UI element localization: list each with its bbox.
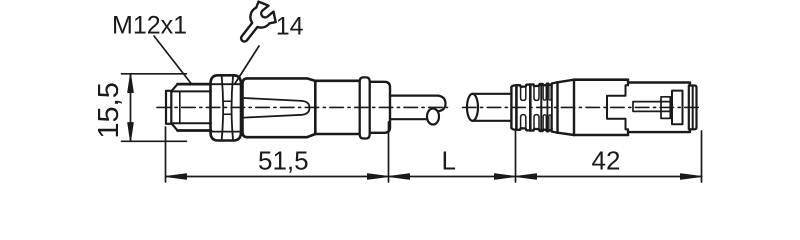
arrow 42 right [681, 174, 702, 180]
arrow L right [495, 174, 516, 180]
body right section [315, 81, 359, 134]
boot thick rib 2 [529, 85, 532, 131]
hex nut facet lines [211, 84, 242, 131]
svg-text:15,5: 15,5 [93, 82, 125, 138]
body mold parting line [314, 81, 316, 134]
boot U slot 3 bottom [543, 115, 546, 131]
hex nut [211, 75, 242, 140]
arrow 51,5 left [166, 174, 187, 180]
RJ45 cap inner line [692, 86, 694, 130]
M12 thread root lines [171, 91, 211, 123]
connector body grip section [243, 78, 316, 137]
RJ45 end cap [689, 86, 697, 130]
leader line wrench size [235, 46, 259, 84]
dimension 15,5 extension lines [122, 74, 187, 142]
M12 face rim [166, 91, 171, 124]
cable left piece [390, 96, 438, 120]
collar ring [360, 77, 370, 138]
svg-text:14: 14 [276, 12, 304, 40]
M12 thread outer lines [178, 84, 212, 130]
boot rib 4 [546, 84, 548, 132]
boot rib 3 [540, 84, 542, 131]
wrench icon [241, 2, 276, 42]
cable left break loop [427, 109, 439, 125]
arrow 42 left [516, 174, 537, 180]
hex nut waist lines [224, 101, 232, 114]
dimension 51,5 extension line left [165, 127, 167, 182]
thread start line [179, 91, 181, 123]
RJ45 mid block [661, 97, 670, 119]
boot end vertical [556, 82, 558, 132]
boot U slot 1 top [521, 85, 526, 101]
boot U slot 4 top [549, 84, 551, 101]
extension line at RJ45 end [701, 131, 703, 182]
RJ45 right block [672, 91, 683, 125]
svg-text:51,5: 51,5 [258, 146, 309, 176]
boot thick rib 1 [515, 85, 518, 129]
RJ45 latch contour [607, 85, 628, 129]
dimension 15,5 line [130, 74, 132, 142]
boot U slot 2 top [534, 84, 539, 100]
svg-text:42: 42 [592, 146, 621, 176]
arrow 51,5 right [368, 174, 389, 180]
cable left break curl [438, 96, 446, 112]
svg-text:M12x1: M12x1 [112, 12, 187, 40]
boot rib 5 [551, 83, 553, 131]
boot cone section [558, 80, 575, 135]
cone body junction line [573, 80, 575, 135]
boot U slot 4 bottom [549, 115, 551, 132]
cable right piece [473, 94, 512, 121]
leader line M12x1 [154, 36, 192, 84]
extension line at boot start [515, 132, 517, 183]
end sleeve [371, 82, 390, 133]
cable right piece ellipse [467, 94, 478, 121]
hex nut facet verticals [222, 76, 233, 139]
M12 thread chamfers [171, 84, 177, 130]
centerline left (axis through M12 connector and cable) [157, 106, 448, 108]
body wedge slot [244, 98, 310, 118]
svg-text:L: L [442, 146, 456, 176]
centerline right (axis through RJ45 connector) [463, 106, 703, 108]
RJ45 step verticals [627, 80, 629, 135]
dimension 15,5 arrows [128, 74, 134, 142]
boot U slot 3 top [543, 84, 546, 100]
boot U slot 2 bottom [534, 115, 539, 131]
RJ45 contact slot [633, 102, 670, 112]
arrow L left [389, 174, 410, 180]
RJ45 overmold section outline [574, 80, 628, 135]
shared extension line at body end [388, 122, 390, 182]
RJ45 boot top edge [511, 82, 557, 132]
boot U slot 1 bottom [521, 115, 526, 131]
RJ45 boot left edge [510, 87, 512, 128]
dimension line bottom [166, 176, 702, 178]
RJ45 plug body outline [628, 83, 690, 133]
